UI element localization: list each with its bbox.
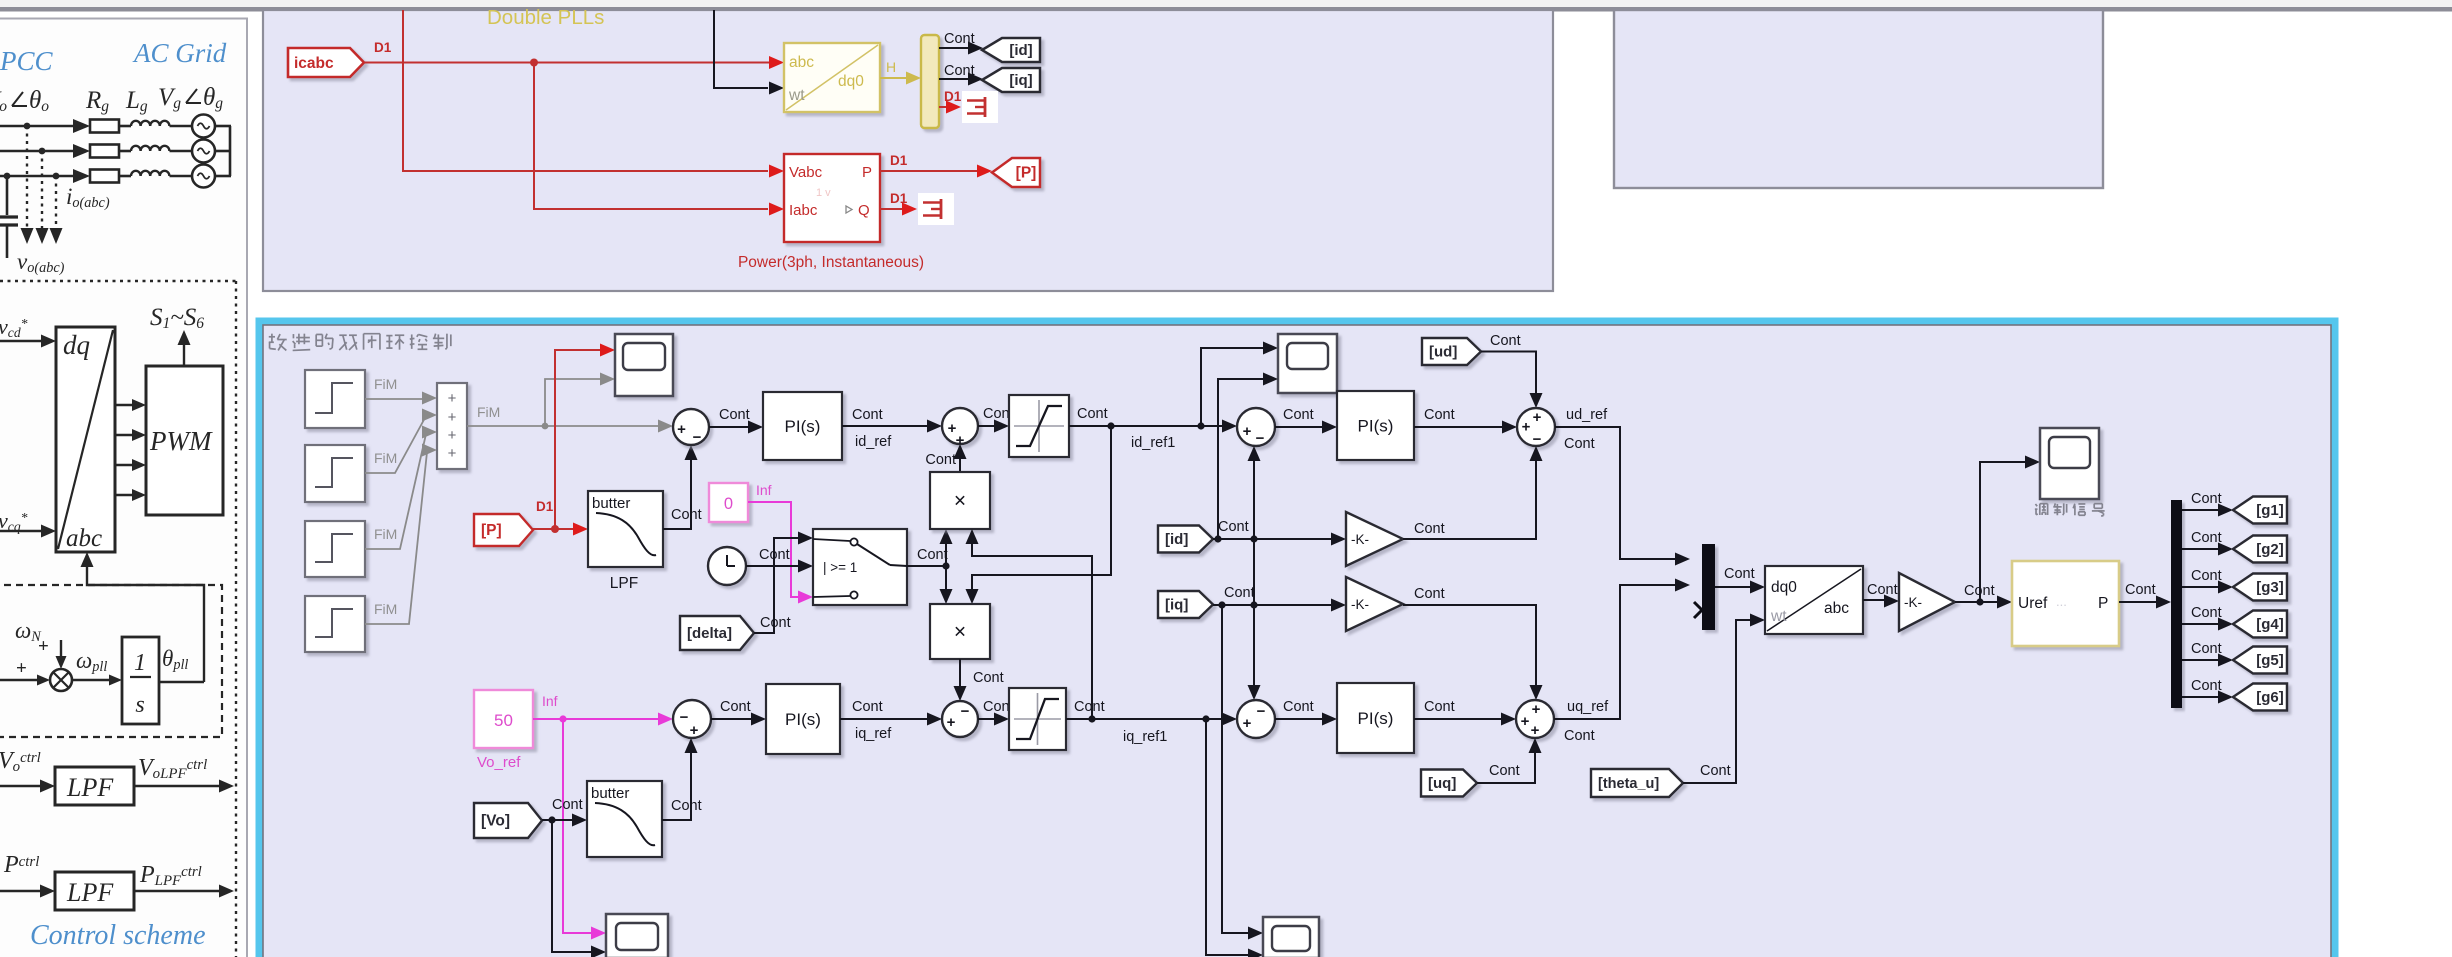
svg-text:+: + xyxy=(1532,701,1541,718)
svg-text:[iq]: [iq] xyxy=(1165,597,1188,614)
from tag [id] xyxy=(1158,526,1213,553)
wire iq_ref1 up to product1 xyxy=(972,543,1092,719)
wire switch to product1 xyxy=(945,541,947,566)
dashed measurement line b xyxy=(41,151,43,228)
svg-text:Cont: Cont xyxy=(671,507,702,523)
wire switch out xyxy=(907,565,946,567)
svg-text:[P]: [P] xyxy=(1016,165,1037,182)
svg-text:Cont: Cont xyxy=(1424,699,1455,715)
goto tag [g6] xyxy=(2233,684,2287,711)
AC source Vg phase a xyxy=(192,115,215,138)
wire Uref to demux xyxy=(2119,601,2157,603)
gain -K- 2 xyxy=(1346,577,1403,631)
svg-text:Cont: Cont xyxy=(2125,582,2156,598)
abc to dq0 transform block xyxy=(784,43,880,112)
power measurement block xyxy=(784,154,880,242)
wire dq to PWM 1 xyxy=(115,404,134,406)
wire dq to PWM 4 xyxy=(115,494,134,496)
node FiM branch xyxy=(542,423,549,430)
wire step1 to sum xyxy=(365,398,425,400)
goto tag [g5] xyxy=(2233,647,2287,674)
svg-text:uq_ref: uq_ref xyxy=(1567,699,1609,715)
svg-text:+: + xyxy=(448,445,457,462)
wire dq to PWM 3 xyxy=(115,464,134,466)
svg-text:[theta_u]: [theta_u] xyxy=(1598,776,1659,792)
PLL mixer xyxy=(50,669,72,691)
svg-text:Inf: Inf xyxy=(542,693,558,709)
wire uq to uqsum xyxy=(1477,750,1535,783)
wire demux to g2 xyxy=(2182,548,2219,550)
switch block xyxy=(813,529,907,605)
butterworth LPF 2 xyxy=(587,781,662,857)
wire Vo down to scope4 in2 xyxy=(552,820,592,952)
rsum1 id loop xyxy=(1237,408,1275,446)
svg-text:+: + xyxy=(1531,722,1540,739)
svg-text:Cont: Cont xyxy=(1490,333,1521,349)
control scheme dashed border right xyxy=(235,281,237,957)
top toolbar strip xyxy=(0,0,2452,7)
svg-text:−: − xyxy=(680,709,689,726)
goto tag [g3] xyxy=(2233,574,2287,601)
node id_ref1 a xyxy=(1107,422,1114,429)
svg-text:+: + xyxy=(448,427,457,444)
wire step4 to sum xyxy=(365,452,427,624)
wire source to bus c xyxy=(215,175,231,178)
svg-text:PI(s): PI(s) xyxy=(785,710,821,729)
svg-text:Cont: Cont xyxy=(852,699,883,715)
sum mid 2 xyxy=(942,701,978,737)
dashed measurement line c xyxy=(55,176,57,228)
wire ud to udsum xyxy=(1481,352,1536,397)
svg-text:−: − xyxy=(1533,431,1542,448)
from tag [uq] xyxy=(1421,770,1477,797)
svg-text:+: + xyxy=(16,658,27,679)
wire PWM to S1-S6 xyxy=(183,342,185,366)
svg-text:dq: dq xyxy=(63,330,90,360)
svg-text:| >= 1: | >= 1 xyxy=(823,560,857,575)
sum1 id loop xyxy=(673,409,709,445)
left paper panel background xyxy=(0,19,247,957)
node id_ref1 b xyxy=(1197,422,1204,429)
svg-text:Cont: Cont xyxy=(1218,519,1249,535)
svg-text:LPF: LPF xyxy=(66,773,114,802)
wire omega input xyxy=(0,679,40,681)
filter capacitor xyxy=(6,176,9,215)
svg-text:Cont: Cont xyxy=(1489,763,1520,779)
svg-text:+: + xyxy=(947,714,956,731)
label modulation chinese xyxy=(2035,504,2037,506)
svg-text:wt: wt xyxy=(788,87,805,104)
wire step2 to sum xyxy=(365,416,426,473)
wire summid1 to sat1 xyxy=(978,425,997,427)
wire resistor to inductor b xyxy=(119,150,131,153)
svg-text:[uq]: [uq] xyxy=(1428,775,1456,792)
wire theta_u to dq0abc wt xyxy=(1683,620,1753,783)
wire LPF1 out xyxy=(134,785,222,787)
mux bar xyxy=(1702,544,1715,630)
wire sum1 to PI1 xyxy=(709,426,751,428)
from tag [Vo] xyxy=(474,803,542,838)
wire iq_ref1 down to scope5 in2 xyxy=(1206,719,1249,955)
svg-text:PCC: PCC xyxy=(0,46,54,76)
goto tag [g1] xyxy=(2233,497,2287,524)
node a xyxy=(24,123,31,130)
wire icabc to abc-dq0 xyxy=(364,62,770,64)
svg-text:Cont: Cont xyxy=(1077,406,1108,422)
wire butter1 to sum1 xyxy=(663,457,691,529)
svg-text:[g5]: [g5] xyxy=(2256,652,2284,669)
svg-text:butter: butter xyxy=(591,785,629,802)
svg-text:[iq]: [iq] xyxy=(1009,72,1032,89)
svg-text:P: P xyxy=(2098,595,2108,612)
svg-text:Cont: Cont xyxy=(719,407,750,423)
sum mid 1 xyxy=(942,408,978,444)
wire FiM branch to scope1 xyxy=(545,379,601,426)
svg-text:...: ... xyxy=(2056,594,2067,609)
wire resistor to inductor c xyxy=(119,175,131,178)
svg-text:iq_ref: iq_ref xyxy=(855,726,892,742)
node iq b xyxy=(1250,601,1257,608)
wire demux to g1 xyxy=(2182,509,2219,511)
svg-text:Cont: Cont xyxy=(1414,586,1445,602)
from tag [P] xyxy=(474,514,533,546)
node Vo branch xyxy=(548,816,555,823)
svg-text:abc: abc xyxy=(789,54,814,71)
svg-text:-K-: -K- xyxy=(1351,597,1369,612)
svg-text:Vo_ref: Vo_ref xyxy=(477,754,521,771)
wire P to butter xyxy=(533,528,576,530)
inductor Lg phase c xyxy=(131,171,169,176)
wire rsum1 to PI3 xyxy=(1275,426,1325,428)
svg-text:dq0: dq0 xyxy=(1771,579,1797,596)
node iq a xyxy=(1218,601,1225,608)
svg-text:Cont: Cont xyxy=(852,407,883,423)
wire id up to scope2 in2 xyxy=(1218,379,1264,539)
wire iq to gain2 xyxy=(1213,604,1332,606)
svg-text:[id]: [id] xyxy=(1009,42,1032,59)
node c2 xyxy=(53,173,60,180)
wire Vo to butter2 xyxy=(542,819,575,821)
svg-text:+: + xyxy=(1522,419,1531,436)
wire dq0 to mux xyxy=(880,77,909,79)
wire gain3 to Uref xyxy=(1955,601,1998,603)
svg-text:Cont: Cont xyxy=(2191,641,2222,657)
wire P to goto xyxy=(880,170,978,172)
wire gain1 to udsum xyxy=(1403,458,1536,539)
LPF block 2 xyxy=(55,872,134,910)
svg-text:Power(3ph, Instantaneous): Power(3ph, Instantaneous) xyxy=(738,254,924,271)
clock block xyxy=(708,547,746,585)
bus selector yellow bar xyxy=(921,35,939,128)
svg-text:Cont: Cont xyxy=(925,452,956,468)
wire phase c feeder xyxy=(0,175,74,178)
arrow vo a xyxy=(21,228,34,244)
wire bus to iq goto xyxy=(939,78,970,80)
svg-text:PI(s): PI(s) xyxy=(1358,709,1394,728)
scope 3 modulation xyxy=(2040,428,2099,499)
svg-text:+: + xyxy=(1243,715,1252,732)
Uref subsystem block xyxy=(2012,561,2119,646)
svg-text:[g2]: [g2] xyxy=(2256,541,2284,558)
wire vcd into dq xyxy=(0,340,44,342)
PI controller 3 xyxy=(1337,391,1414,460)
svg-text:id_ref: id_ref xyxy=(855,434,892,450)
svg-text:Cont: Cont xyxy=(671,798,702,814)
node b xyxy=(39,148,46,155)
wire summid2 to sat2 xyxy=(978,718,997,720)
node icabc branch xyxy=(530,59,538,67)
wire sat1 to rsum1 xyxy=(1069,425,1225,427)
wire switch to product2 xyxy=(945,566,947,592)
svg-text:Cont: Cont xyxy=(552,797,583,813)
wire phase b feeder xyxy=(0,150,74,153)
wire id to gain1 xyxy=(1213,538,1332,540)
svg-text:Cont: Cont xyxy=(1283,407,1314,423)
node 50 branch xyxy=(559,715,566,722)
goto tag [g2] xyxy=(2233,536,2287,563)
svg-text:Cont: Cont xyxy=(2191,491,2222,507)
svg-text:Cont: Cont xyxy=(1564,728,1595,744)
scope 2 xyxy=(1278,334,1337,393)
wire PI4 to uqsum xyxy=(1414,718,1504,720)
svg-text:-K-: -K- xyxy=(1351,532,1369,547)
svg-text:ud_ref: ud_ref xyxy=(1566,407,1608,423)
wire rsum2 to PI4 xyxy=(1275,718,1325,720)
svg-text:Cont: Cont xyxy=(2191,568,2222,584)
wire demux to g6 xyxy=(2182,696,2219,698)
svg-text:1: 1 xyxy=(134,650,146,676)
wire 50 to sum2 xyxy=(533,718,659,720)
wire LPF2 out xyxy=(134,890,222,892)
wire wt from above xyxy=(714,10,768,88)
svg-text:PI(s): PI(s) xyxy=(785,417,821,436)
control scheme dashed border top xyxy=(0,280,240,282)
svg-text:+: + xyxy=(1243,423,1252,440)
scope 1 xyxy=(615,334,673,396)
grid bus vertical xyxy=(229,126,232,176)
wire into LPF2 xyxy=(0,890,43,892)
svg-text:P: P xyxy=(862,164,872,181)
wire sum2 to PI2 xyxy=(711,718,754,720)
svg-text:Cont: Cont xyxy=(1414,521,1445,537)
wire FiM to sum1 xyxy=(467,425,661,427)
svg-text:Inf: Inf xyxy=(756,482,772,498)
inductor Lg phase a xyxy=(131,121,169,126)
wire mux to dq0abc xyxy=(1715,586,1753,588)
dq-abc transform block xyxy=(56,327,115,552)
wire icabc branch down to Iabc xyxy=(534,63,768,210)
node iq_ref1 b xyxy=(1202,715,1209,722)
svg-text:D1: D1 xyxy=(536,499,554,514)
wire vabc from above xyxy=(403,10,768,171)
PI controller 2 xyxy=(766,684,840,754)
svg-text:Cont: Cont xyxy=(1564,436,1595,452)
svg-text:s: s xyxy=(135,692,144,718)
svg-text:D1: D1 xyxy=(374,40,392,55)
wire PI2 to summid2 xyxy=(840,718,930,720)
main subsystem box selected cyan xyxy=(259,321,2335,957)
scope 5 bottom right xyxy=(1263,917,1319,957)
node switch out xyxy=(942,562,949,569)
wire clock to switch in2 xyxy=(746,565,799,567)
input port icabc xyxy=(288,48,364,77)
svg-text:Iabc: Iabc xyxy=(789,202,818,219)
wire inductor to source b xyxy=(170,150,193,153)
svg-text:[g6]: [g6] xyxy=(2256,689,2284,706)
svg-text:D1: D1 xyxy=(890,153,908,168)
svg-text:1 v: 1 v xyxy=(816,187,831,199)
svg-text:LPF: LPF xyxy=(610,575,638,592)
wire butter2 to sum2 xyxy=(662,750,691,820)
wire PI3 to udsum xyxy=(1414,426,1505,428)
svg-text:[g4]: [g4] xyxy=(2256,616,2284,633)
saturation 2 xyxy=(1009,688,1066,750)
wire id_ref1 up to scope2 xyxy=(1201,348,1264,426)
wire gain2 to uqsum xyxy=(1403,605,1536,686)
LPF block 1 xyxy=(55,767,134,805)
wire PI1 to summid1 xyxy=(842,425,930,427)
rsum2 iq loop xyxy=(1237,700,1275,738)
wire dq0abc to gain3 xyxy=(1863,599,1887,601)
wire product2 to summid2 xyxy=(959,659,961,689)
node iq_ref1 a xyxy=(1088,715,1095,722)
wire gain3 up to scope3 xyxy=(1980,462,2026,602)
scope 4 bottom left xyxy=(606,914,668,957)
gain -K- 1 xyxy=(1346,512,1403,566)
demux bar xyxy=(2171,500,2182,708)
node gain3 out xyxy=(1976,598,1983,605)
product 2 xyxy=(930,604,990,659)
goto tag [P] xyxy=(992,158,1040,187)
wire inductor to source c xyxy=(170,175,193,178)
svg-text:Cont: Cont xyxy=(973,670,1004,686)
uqsum xyxy=(1516,700,1554,738)
svg-text:+: + xyxy=(448,390,457,407)
wire feedback column xyxy=(1253,458,1255,688)
arrow vo b xyxy=(36,228,49,244)
svg-text:id_ref1: id_ref1 xyxy=(1131,435,1175,451)
svg-text:Cont: Cont xyxy=(1283,699,1314,715)
svg-text:butter: butter xyxy=(592,495,630,512)
PI controller 1 xyxy=(763,392,842,460)
constant 50 block xyxy=(474,690,533,748)
wire demux to g4 xyxy=(2182,623,2219,625)
svg-text:−: − xyxy=(1256,430,1265,447)
wire integrator out xyxy=(159,681,204,683)
svg-text:Cont: Cont xyxy=(917,547,948,563)
step source 2 xyxy=(305,445,365,502)
wire product1 to summid1 xyxy=(959,456,961,472)
svg-text:D1: D1 xyxy=(890,191,908,206)
wire inductor to source a xyxy=(170,125,193,128)
svg-text:FiM: FiM xyxy=(374,526,397,542)
wire udsum to mux in1 xyxy=(1555,427,1676,559)
svg-text:+: + xyxy=(1533,409,1542,426)
wire vcq into dq xyxy=(0,530,44,532)
from tag [delta] xyxy=(680,616,754,650)
svg-text:[g1]: [g1] xyxy=(2256,502,2284,519)
from tag [theta_u] xyxy=(1591,769,1683,797)
svg-text:Vabc: Vabc xyxy=(789,164,823,181)
AC source Vg phase b xyxy=(192,140,215,163)
inductor Lg phase b xyxy=(131,146,169,151)
goto tag [id] top xyxy=(982,38,1040,62)
svg-text:LPF: LPF xyxy=(66,878,114,907)
sum of steps block xyxy=(437,383,467,469)
svg-text:×: × xyxy=(954,621,966,644)
svg-text:wt: wt xyxy=(1770,608,1787,625)
wire source to bus b xyxy=(215,150,231,153)
title main box chinese xyxy=(269,336,275,338)
svg-text:Cont: Cont xyxy=(1424,407,1455,423)
node id b xyxy=(1250,535,1257,542)
svg-text:abc: abc xyxy=(66,525,102,552)
svg-text:Uref: Uref xyxy=(2018,595,2048,612)
svg-text:[ud]: [ud] xyxy=(1429,344,1457,361)
wire bus to id goto xyxy=(939,47,970,49)
svg-text:[P]: [P] xyxy=(481,522,502,539)
wire demux to g5 xyxy=(2182,659,2219,661)
step source 4 xyxy=(305,596,365,652)
svg-text:[delta]: [delta] xyxy=(687,625,732,642)
svg-text:Cont: Cont xyxy=(1724,566,1755,582)
svg-text:Cont: Cont xyxy=(1074,699,1105,715)
goto tag [g4] xyxy=(2233,611,2287,638)
wire phase a feeder xyxy=(0,125,74,128)
svg-text:Cont: Cont xyxy=(720,699,751,715)
svg-text:S1~S6: S1~S6 xyxy=(150,304,204,332)
wire Q to terminator xyxy=(880,208,905,210)
saturation 1 xyxy=(1009,395,1069,457)
wire delta to switch in1 xyxy=(754,538,799,633)
svg-text:Cont: Cont xyxy=(1700,763,1731,779)
node c xyxy=(4,173,11,180)
svg-text:[g3]: [g3] xyxy=(2256,579,2284,596)
svg-text:−: − xyxy=(961,703,970,720)
svg-text:PWM: PWM xyxy=(149,426,213,456)
wire P up to scope1 xyxy=(555,350,601,529)
svg-text:Cont: Cont xyxy=(2191,530,2222,546)
svg-text:Cont: Cont xyxy=(1224,585,1255,601)
svg-text:Cont: Cont xyxy=(1867,582,1898,598)
svg-text:+: + xyxy=(677,421,686,438)
resistor Rg phase a xyxy=(90,120,119,133)
PWM block xyxy=(146,366,223,515)
svg-text:−: − xyxy=(693,429,702,446)
svg-text:-K-: -K- xyxy=(1904,595,1922,610)
svg-text:FiM: FiM xyxy=(374,601,397,617)
node id a xyxy=(1214,535,1221,542)
dq0 to abc block xyxy=(1765,566,1863,634)
top right subsystem box xyxy=(1614,10,2103,188)
wire source to bus a xyxy=(215,125,231,128)
from tag [iq] xyxy=(1158,591,1213,618)
svg-text:0: 0 xyxy=(724,495,733,513)
from tag [ud] xyxy=(1422,338,1481,365)
svg-text:FiM: FiM xyxy=(374,376,397,392)
wire theta feedback to abc xyxy=(87,566,204,682)
svg-text:+: + xyxy=(38,636,49,657)
resistor Rg phase c xyxy=(90,170,119,183)
svg-text:PI(s): PI(s) xyxy=(1358,417,1394,436)
svg-text:FiM: FiM xyxy=(477,404,500,420)
svg-text:×: × xyxy=(954,490,966,513)
svg-text:+: + xyxy=(690,722,699,739)
node P branch xyxy=(551,525,559,533)
step source 1 xyxy=(305,370,365,428)
dashed measurement line a xyxy=(26,126,28,228)
PI controller 4 xyxy=(1337,683,1414,753)
